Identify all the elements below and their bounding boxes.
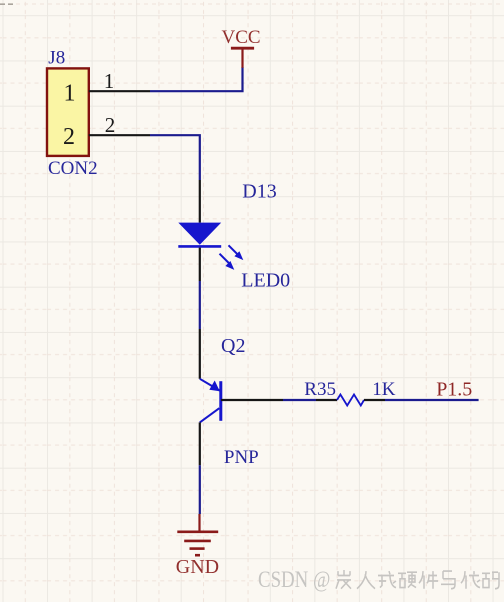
bar 3 <box>190 547 205 550</box>
svg-text:1K: 1K <box>372 379 396 400</box>
svg-text:R35: R35 <box>304 379 336 400</box>
right pin <box>364 399 385 401</box>
watermark CSDN <box>258 566 330 592</box>
bar 4 <box>195 554 200 557</box>
watermark CJK glyph approximations <box>336 570 499 589</box>
emitter diagonal <box>200 408 220 422</box>
svg-text:VCC: VCC <box>222 27 261 48</box>
svg-text:1: 1 <box>64 80 76 106</box>
connector J8 body <box>47 68 89 155</box>
VCC power port <box>222 27 261 68</box>
cathode pin <box>199 248 201 281</box>
LED D13 <box>178 180 290 291</box>
码 <box>482 572 499 589</box>
svg-text:J8: J8 <box>48 48 65 69</box>
件 <box>419 571 438 589</box>
bar 1 <box>177 530 218 533</box>
wire base to R35 <box>283 399 316 401</box>
emission arrow 1 <box>229 245 244 260</box>
硬 <box>398 572 417 587</box>
svg-text:2: 2 <box>105 113 116 137</box>
svg-text:1: 1 <box>104 69 115 93</box>
svg-text:CON2: CON2 <box>48 158 98 179</box>
pin 1 of J8 <box>89 90 150 92</box>
svg-text:D13: D13 <box>242 180 276 202</box>
base pin <box>221 399 283 401</box>
wire emitter to GND <box>199 465 201 514</box>
svg-text:Q2: Q2 <box>221 335 245 357</box>
入 <box>357 571 375 589</box>
resistor R35 <box>304 379 396 406</box>
svg-text:CSDN @: CSDN @ <box>258 566 330 592</box>
base bar <box>219 381 222 421</box>
pin 2 of J8 <box>89 134 150 136</box>
ground GND <box>176 514 219 578</box>
svg-text:GND: GND <box>176 556 219 578</box>
collector pin <box>199 329 201 379</box>
wire pin2 to LED <box>150 135 200 180</box>
emission arrow 2 <box>220 254 235 270</box>
triangle <box>178 223 221 245</box>
anode pin <box>199 180 201 223</box>
svg-text:PNP: PNP <box>224 447 259 468</box>
left pin <box>316 399 337 401</box>
wire R35 to net label <box>385 399 479 401</box>
collector diagonal with arrow <box>200 379 220 391</box>
式 <box>378 571 396 588</box>
与 <box>441 571 455 589</box>
emitter pin <box>199 422 201 465</box>
zigzag <box>337 395 364 406</box>
bar 2 <box>184 540 211 543</box>
svg-text:LED0: LED0 <box>241 269 290 291</box>
svg-text:2: 2 <box>63 124 75 150</box>
cathode bar <box>178 245 221 248</box>
wire LED to Q2 collector <box>199 281 201 329</box>
stem <box>198 514 200 532</box>
嵌 <box>336 570 351 589</box>
svg-text:P1.5: P1.5 <box>436 378 472 400</box>
wire pin1 to VCC <box>150 67 243 91</box>
代 <box>461 571 480 589</box>
transistor Q2 (PNP) <box>200 329 283 468</box>
